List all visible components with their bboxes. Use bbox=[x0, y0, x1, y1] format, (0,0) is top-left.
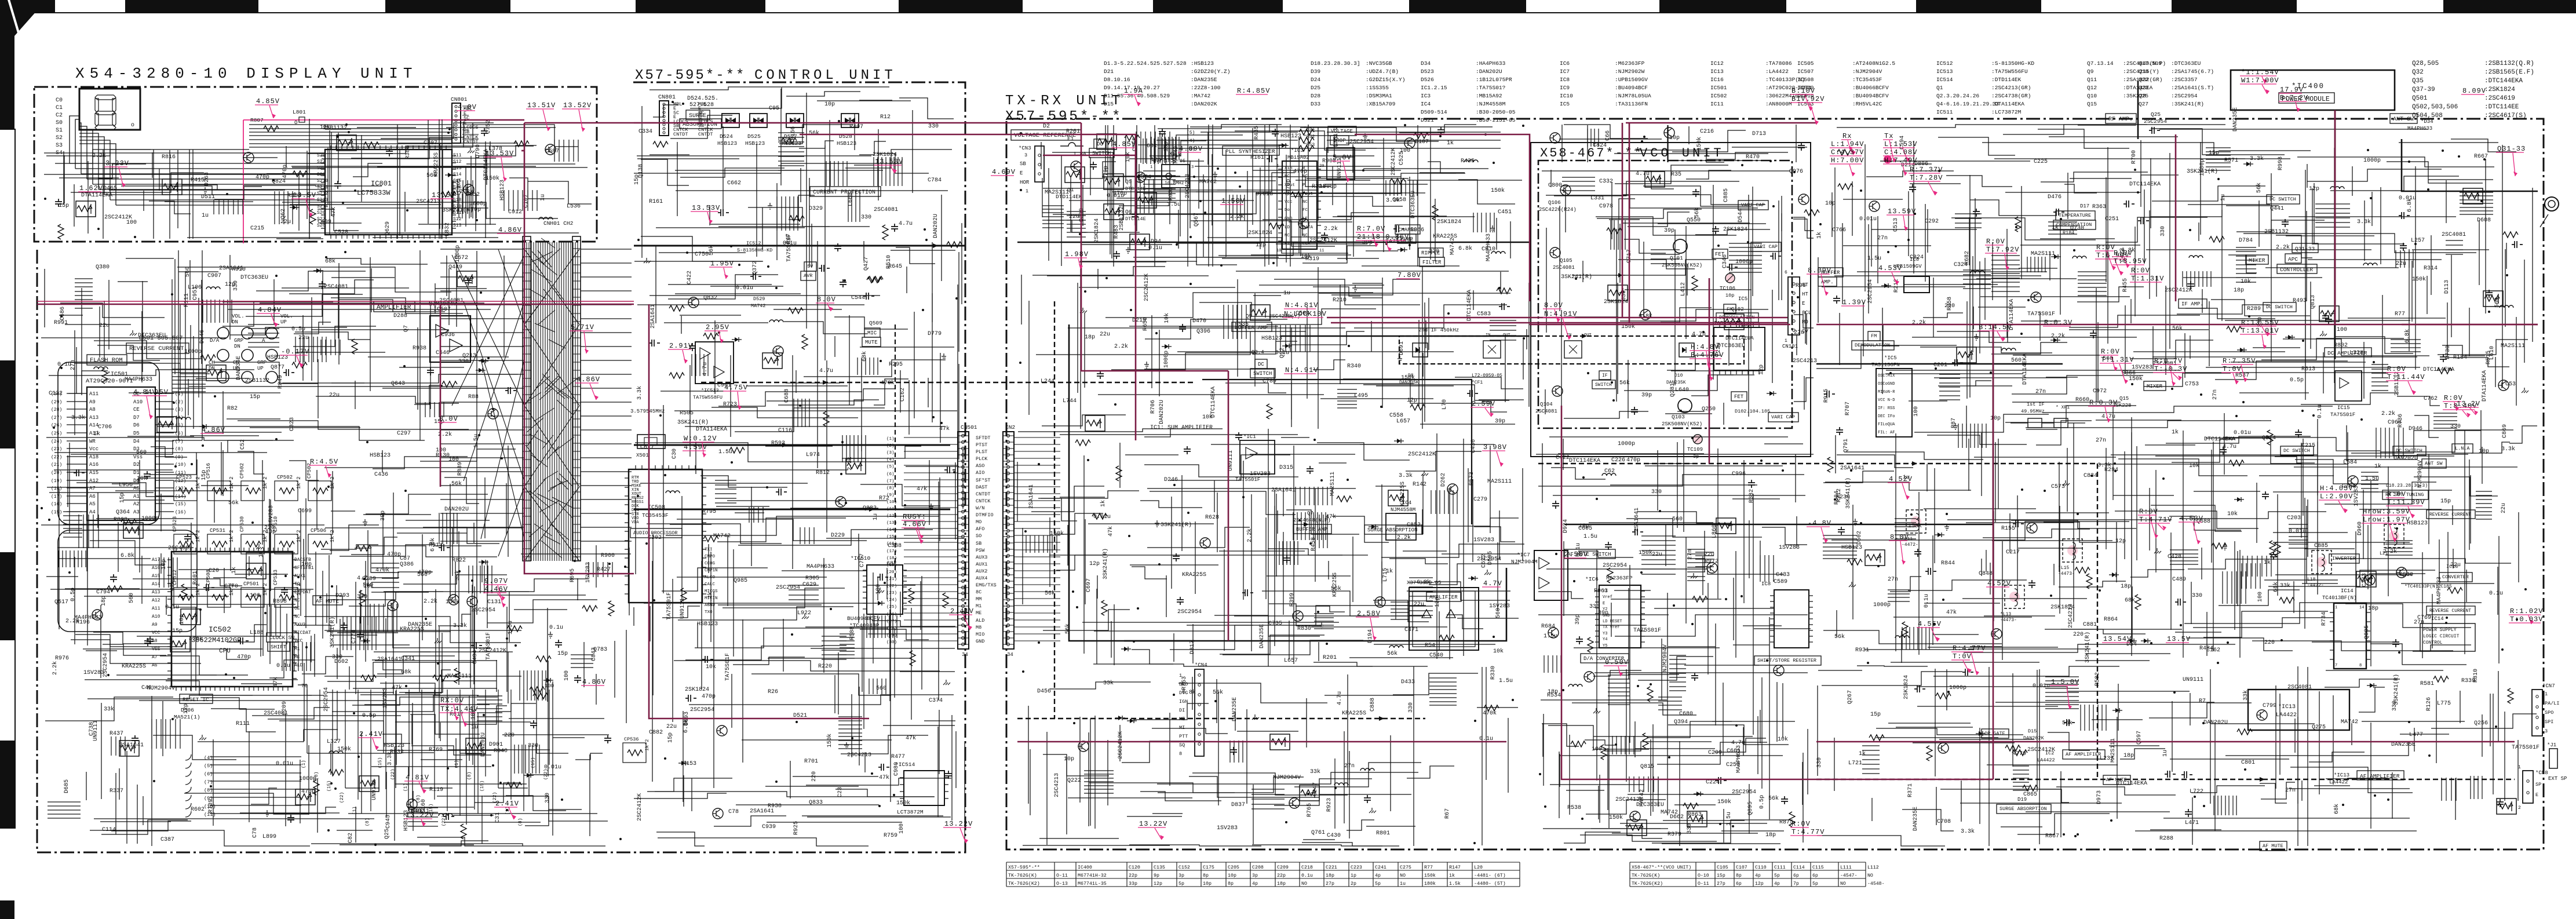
svg-text:0.01u: 0.01u bbox=[736, 285, 753, 291]
svg-text::DTC363EU: :DTC363EU bbox=[2171, 60, 2201, 67]
svg-text:R:0V: R:0V bbox=[2387, 490, 2406, 498]
svg-text:R435: R435 bbox=[1254, 126, 1260, 140]
svg-text:2SC2954: 2SC2954 bbox=[103, 653, 109, 677]
svg-text:(28): (28) bbox=[51, 407, 62, 413]
svg-text:D24: D24 bbox=[1311, 76, 1320, 83]
svg-text:D817: D817 bbox=[1190, 640, 1196, 654]
svg-text:4.86V: 4.86V bbox=[577, 375, 600, 384]
pin stub clusters bbox=[477, 562, 612, 774]
svg-text:2.2k: 2.2k bbox=[2381, 410, 2395, 417]
svg-text:MO: MO bbox=[976, 519, 981, 525]
boxed resistor networks CP501-CP531 bbox=[174, 481, 197, 501]
svg-text:0.1u: 0.1u bbox=[1275, 350, 1289, 356]
svg-text:R925: R925 bbox=[793, 821, 800, 835]
svg-text:R493: R493 bbox=[2293, 298, 2307, 304]
svg-text:68k: 68k bbox=[2272, 582, 2279, 592]
ground bbox=[1144, 362, 1149, 368]
svg-text:TA75S01F: TA75S01F bbox=[786, 234, 793, 262]
svg-text:2SC2412K: 2SC2412K bbox=[1144, 273, 1150, 301]
svg-text:3SK241(R): 3SK241(R) bbox=[2084, 632, 2091, 663]
pin stub clusters bbox=[1224, 283, 1516, 408]
svg-text:3.579545MHz: 3.579545MHz bbox=[630, 409, 665, 414]
svg-text:C23: C23 bbox=[837, 787, 844, 797]
svg-text:3.3k: 3.3k bbox=[2501, 446, 2515, 453]
svg-text:(23): (23) bbox=[886, 591, 897, 596]
svg-text:3SK241(R): 3SK241(R) bbox=[2393, 674, 2400, 705]
IC514 regulator bbox=[904, 771, 944, 805]
resistor R309 bbox=[293, 171, 308, 177]
svg-text:3.98V: 3.98V bbox=[1483, 443, 1507, 451]
svg-text:2SA1641: 2SA1641 bbox=[1271, 487, 1296, 494]
svg-text:MA2S111: MA2S111 bbox=[1045, 189, 1069, 196]
svg-text:0.1u: 0.1u bbox=[1148, 245, 1162, 251]
svg-text:47k: 47k bbox=[272, 677, 279, 687]
svg-text:10k: 10k bbox=[1778, 736, 1788, 743]
svg-text:22u: 22u bbox=[1704, 552, 1714, 558]
svg-text:H:7.00V: H:7.00V bbox=[1831, 156, 1864, 165]
AF mute labels bbox=[2103, 775, 2130, 785]
svg-text:D602: D602 bbox=[334, 659, 348, 665]
capacitor C55 bbox=[1552, 501, 1559, 509]
svg-text:L328: L328 bbox=[2349, 350, 2363, 356]
inductor L888 bbox=[1464, 160, 1478, 162]
svg-text:470k: 470k bbox=[1483, 710, 1497, 717]
transistor Q646 bbox=[1630, 811, 1640, 822]
junction dots bbox=[1747, 241, 1749, 243]
svg-text:VCC: VCC bbox=[152, 630, 160, 636]
ground bbox=[363, 519, 367, 526]
svg-text:(19): (19) bbox=[51, 479, 62, 484]
svg-text:1k: 1k bbox=[2052, 224, 2059, 231]
svg-text:KRA225S: KRA225S bbox=[1182, 572, 1206, 578]
transistor Q445 bbox=[466, 738, 486, 754]
svg-text:(1): (1) bbox=[886, 437, 895, 442]
svg-text:C489: C489 bbox=[2172, 577, 2186, 583]
svg-text:C968: C968 bbox=[2388, 420, 2402, 426]
svg-text:IC16: IC16 bbox=[1710, 76, 1724, 83]
ground bbox=[644, 258, 651, 263]
svg-text:R889: R889 bbox=[457, 462, 464, 476]
svg-text:150k: 150k bbox=[2412, 276, 2426, 283]
diode D570 bbox=[481, 359, 486, 363]
svg-text:0.1u: 0.1u bbox=[2317, 404, 2323, 418]
svg-text:Q32: Q32 bbox=[2412, 69, 2424, 76]
ground bbox=[1490, 225, 1495, 232]
svg-text:22u: 22u bbox=[329, 392, 340, 399]
svg-text:C110: C110 bbox=[1755, 865, 1767, 870]
svg-text:CN501: CN501 bbox=[961, 424, 977, 431]
resistor R138 bbox=[1125, 135, 1140, 141]
svg-text:1000p: 1000p bbox=[469, 201, 487, 207]
svg-text:FM: FM bbox=[1871, 333, 1877, 339]
svg-text:DC SWITCH: DC SWITCH bbox=[2269, 196, 2296, 202]
svg-text:R:0V: R:0V bbox=[2131, 267, 2150, 275]
svg-text:CN801: CN801 bbox=[451, 96, 468, 103]
capacitor C61 bbox=[1307, 466, 1313, 474]
svg-text:150k: 150k bbox=[896, 800, 910, 807]
svg-text:C297: C297 bbox=[397, 431, 411, 437]
svg-text:47k: 47k bbox=[906, 735, 916, 742]
svg-text:D18.23.28.30.3]: D18.23.28.30.3] bbox=[1311, 60, 1360, 67]
svg-text:OSC:MIX: OSC:MIX bbox=[1878, 374, 1895, 378]
svg-text:1.62V: 1.62V bbox=[79, 184, 103, 192]
svg-text:R840: R840 bbox=[494, 748, 508, 754]
svg-text:X57-595*-**: X57-595*-** bbox=[1008, 865, 1040, 870]
resistor R275 bbox=[2229, 460, 2244, 466]
svg-text:Y3: Y3 bbox=[1603, 632, 1607, 636]
svg-text:R684: R684 bbox=[1541, 623, 1555, 630]
svg-text:C885: C885 bbox=[1723, 188, 1730, 202]
svg-text:3.3k: 3.3k bbox=[636, 386, 643, 400]
transistor Q371 bbox=[1716, 518, 1736, 534]
svg-text:(2): (2) bbox=[886, 444, 895, 448]
wire bus bbox=[1542, 512, 1784, 841]
svg-text::1SS355: :1SS355 bbox=[1366, 85, 1389, 91]
wire bus vertical bbox=[1030, 666, 1508, 846]
svg-text:13.22V: 13.22V bbox=[406, 811, 434, 819]
capacitor C615 bbox=[555, 640, 562, 648]
svg-text:18p: 18p bbox=[1548, 689, 1558, 695]
svg-text:15p: 15p bbox=[2440, 498, 2451, 505]
svg-text:DTC114EKA: DTC114EKA bbox=[2116, 781, 2147, 787]
svg-text:1SV283: 1SV283 bbox=[1473, 537, 1494, 544]
resistor R755 bbox=[908, 588, 914, 603]
svg-text:C980: C980 bbox=[893, 762, 900, 776]
transistor Q47 bbox=[123, 523, 143, 538]
svg-text:C794: C794 bbox=[96, 589, 110, 596]
svg-text:1k: 1k bbox=[2172, 429, 2179, 436]
svg-text:A7: A7 bbox=[89, 486, 96, 491]
svg-text:AMPLIFIER: AMPLIFIER bbox=[1429, 595, 1458, 600]
svg-text:CN101: CN101 bbox=[1782, 344, 1798, 349]
capacitor C477 bbox=[2282, 219, 2289, 227]
svg-text:56k: 56k bbox=[1213, 689, 1223, 696]
svg-text:D502: D502 bbox=[1856, 531, 1863, 545]
svg-text:R822: R822 bbox=[452, 557, 466, 564]
svg-text::G2DZ15(X.Y): :G2DZ15(X.Y) bbox=[1366, 76, 1405, 83]
svg-text:1SV283: 1SV283 bbox=[268, 505, 275, 526]
svg-text:5p: 5p bbox=[1375, 881, 1381, 887]
svg-text:R470: R470 bbox=[1746, 154, 1760, 161]
svg-text:C589: C589 bbox=[1774, 579, 1787, 585]
svg-text:4.52V: 4.52V bbox=[1987, 579, 2011, 588]
svg-text:C801: C801 bbox=[2241, 760, 2255, 766]
resistor R799 bbox=[58, 224, 64, 239]
svg-text:1k*2: 1k*2 bbox=[296, 476, 302, 489]
svg-text:DAN202U: DAN202U bbox=[480, 732, 487, 757]
svg-text:R695: R695 bbox=[570, 568, 576, 582]
resistor R610 bbox=[329, 770, 344, 775]
transistor Q206 bbox=[1938, 743, 1949, 753]
capacitor C472 bbox=[1836, 427, 1843, 435]
key matrix VOL/CH buttons bbox=[217, 327, 229, 339]
svg-text:C428: C428 bbox=[2168, 554, 2181, 560]
capacitor C938 bbox=[776, 488, 787, 495]
svg-text:560: 560 bbox=[2011, 358, 2022, 364]
svg-text:0.01u: 0.01u bbox=[1859, 216, 1877, 223]
svg-text:2SC2412K: 2SC2412K bbox=[479, 648, 506, 654]
capacitor C481 bbox=[1242, 589, 1253, 596]
svg-text:49.95MHz: 49.95MHz bbox=[2021, 409, 2045, 414]
svg-text:C540: C540 bbox=[1429, 652, 1443, 659]
wire bus bbox=[1885, 162, 2528, 374]
svg-text:68k: 68k bbox=[401, 669, 411, 676]
svg-text:DTC363EU: DTC363EU bbox=[1410, 191, 1417, 218]
svg-text:L956: L956 bbox=[119, 482, 133, 488]
svg-text:C:4.08V: C:4.08V bbox=[1884, 148, 1917, 156]
svg-text:R966: R966 bbox=[1410, 227, 1424, 234]
svg-text:IC502: IC502 bbox=[1710, 93, 1727, 99]
svg-text:SWITCH: SWITCH bbox=[1595, 382, 1612, 388]
svg-text:3.3k: 3.3k bbox=[2250, 155, 2264, 162]
svg-text:C888: C888 bbox=[1370, 698, 1376, 712]
svg-text:10p: 10p bbox=[179, 614, 185, 625]
svg-text:4.59V: 4.59V bbox=[684, 443, 707, 451]
transistor Q563 bbox=[835, 497, 846, 507]
svg-text:*1:1.54V: *1:1.54V bbox=[2241, 68, 2279, 76]
svg-text:22u: 22u bbox=[298, 335, 309, 341]
capacitor C894 bbox=[1952, 359, 1963, 366]
svg-text:D15: D15 bbox=[2028, 728, 2037, 734]
svg-text:0.01u: 0.01u bbox=[544, 764, 561, 771]
svg-text:150k: 150k bbox=[826, 734, 833, 747]
diode D583 bbox=[1471, 576, 1475, 581]
svg-text:Q364: Q364 bbox=[116, 509, 130, 516]
ground bbox=[1363, 133, 1367, 140]
capacitor C512 bbox=[891, 224, 898, 232]
svg-text:C936: C936 bbox=[441, 332, 455, 338]
svg-text:R645: R645 bbox=[888, 264, 902, 270]
svg-text:C31: C31 bbox=[495, 812, 501, 823]
resistor R175 bbox=[1607, 228, 1622, 234]
svg-text:C2: C2 bbox=[56, 112, 63, 119]
svg-text:R730: R730 bbox=[2445, 345, 2451, 359]
svg-text:39p: 39p bbox=[1664, 228, 1674, 234]
ANT SW label 2 bbox=[2422, 459, 2446, 468]
svg-text:10p: 10p bbox=[265, 529, 276, 535]
resistor R157 bbox=[2212, 543, 2227, 549]
svg-text:AUX3: AUX3 bbox=[976, 555, 987, 560]
transistor Q973 bbox=[1550, 133, 1560, 143]
svg-text:4.86V: 4.86V bbox=[582, 678, 606, 686]
svg-text:D15: D15 bbox=[1104, 101, 1114, 107]
svg-text:AUX2: AUX2 bbox=[976, 568, 987, 574]
resistor R40 bbox=[1337, 496, 1352, 502]
resistor R83 bbox=[1804, 210, 1819, 216]
svg-text:TA75S01F: TA75S01F bbox=[1633, 628, 1661, 634]
svg-text:A15: A15 bbox=[89, 470, 98, 476]
capacitor C11 bbox=[1712, 226, 1719, 234]
svg-text:-4548-: -4548- bbox=[1867, 881, 1884, 887]
capacitor C894 bbox=[74, 469, 85, 476]
svg-text:47k: 47k bbox=[939, 425, 950, 432]
svg-text:DAN202U: DAN202U bbox=[933, 214, 939, 238]
capacitor C221 bbox=[1914, 549, 1921, 557]
svg-text:4.7u: 4.7u bbox=[702, 362, 709, 376]
resistor R974 bbox=[2015, 217, 2021, 232]
svg-text:R976: R976 bbox=[55, 655, 69, 662]
capacitor C562 bbox=[750, 273, 761, 280]
svg-text:NC: NC bbox=[1302, 200, 1308, 205]
svg-text:L.N.A: L.N.A bbox=[2455, 446, 2470, 451]
svg-text:3SK241(R): 3SK241(R) bbox=[677, 419, 709, 426]
junction dots bbox=[2150, 642, 2152, 644]
diode D210 bbox=[479, 368, 483, 373]
wire bus bbox=[1564, 165, 1770, 391]
svg-text:C617: C617 bbox=[640, 444, 654, 451]
svg-text:M1: M1 bbox=[976, 603, 981, 609]
capacitor C677 bbox=[1230, 747, 1237, 755]
pin stub clusters bbox=[59, 512, 315, 671]
svg-text:22u: 22u bbox=[2450, 562, 2461, 568]
capacitor C47 bbox=[341, 622, 348, 630]
svg-text:CP501: CP501 bbox=[243, 581, 259, 587]
svg-text:R147: R147 bbox=[1449, 865, 1461, 870]
svg-text:27p: 27p bbox=[1326, 881, 1334, 887]
transistor Q23 bbox=[1957, 347, 1976, 363]
svg-text:*CN3: *CN3 bbox=[1019, 145, 1031, 151]
svg-text:UP: UP bbox=[280, 319, 287, 325]
svg-text:470p: 470p bbox=[1286, 179, 1292, 193]
svg-text:D525: D525 bbox=[747, 133, 761, 140]
svg-text:1000p: 1000p bbox=[2363, 158, 2381, 164]
svg-text:1: 1 bbox=[2518, 765, 2521, 770]
svg-text:2SC2412K: 2SC2412K bbox=[2027, 747, 2055, 753]
resistor R843 bbox=[2503, 232, 2518, 238]
connector CN3 bbox=[1035, 146, 1044, 182]
transistor Q776 bbox=[1071, 161, 1081, 172]
svg-text:MIXoN-R: MIXoN-R bbox=[1878, 390, 1895, 395]
svg-text:MA742: MA742 bbox=[1661, 809, 1678, 816]
svg-text:DEC IFo: DEC IFo bbox=[1878, 414, 1895, 419]
svg-text:D524: D524 bbox=[720, 133, 733, 140]
svg-text:R77: R77 bbox=[1424, 865, 1433, 870]
svg-text:330: 330 bbox=[928, 123, 939, 130]
svg-text:L237: L237 bbox=[2100, 756, 2114, 762]
svg-text:NO: NO bbox=[1301, 881, 1307, 887]
svg-text:Rx: Rx bbox=[1842, 132, 1852, 140]
ground bbox=[1953, 423, 1958, 429]
svg-text:1k: 1k bbox=[2374, 463, 2381, 470]
svg-text:S12: S12 bbox=[453, 217, 462, 222]
svg-text:C115: C115 bbox=[1812, 865, 1824, 870]
wire bus vertical bbox=[64, 149, 309, 239]
capacitor C615 bbox=[471, 642, 482, 649]
svg-text:IC514: IC514 bbox=[1936, 76, 1953, 83]
svg-text:2SC4081: 2SC4081 bbox=[168, 545, 192, 552]
svg-text:18p: 18p bbox=[2123, 753, 2134, 759]
svg-text:C544: C544 bbox=[851, 295, 865, 301]
wire bus bbox=[94, 701, 521, 846]
svg-text:1k*2: 1k*2 bbox=[644, 739, 650, 751]
svg-text:CP502: CP502 bbox=[239, 463, 245, 479]
svg-text:8C: 8C bbox=[976, 589, 981, 595]
svg-text:D521: D521 bbox=[1421, 117, 1434, 123]
capacitor C137 bbox=[1781, 796, 1788, 804]
svg-text:(8): (8) bbox=[886, 486, 895, 491]
inductor L855 bbox=[1334, 783, 1348, 785]
svg-text:C996: C996 bbox=[1732, 471, 1746, 477]
svg-text:D470: D470 bbox=[1192, 318, 1206, 324]
svg-text:2SC2412K: 2SC2412K bbox=[1391, 148, 1397, 176]
svg-text:S26: S26 bbox=[317, 210, 326, 216]
transistor Q606 bbox=[1137, 192, 1156, 208]
svg-text:D784: D784 bbox=[2239, 238, 2253, 244]
svg-text:A18: A18 bbox=[89, 454, 98, 460]
svg-text:X501: X501 bbox=[636, 453, 649, 458]
svg-text:L660: L660 bbox=[848, 192, 854, 206]
svg-text:12p: 12p bbox=[1151, 157, 1161, 163]
svg-text::2SC4617(S): :2SC4617(S) bbox=[2484, 112, 2527, 119]
svg-text:C869: C869 bbox=[2502, 424, 2508, 438]
resistor R365 bbox=[313, 780, 319, 795]
svg-text:C241: C241 bbox=[1375, 865, 1386, 870]
resistor R18 bbox=[582, 606, 597, 611]
svg-text:L722: L722 bbox=[2190, 789, 2203, 795]
svg-text:33k: 33k bbox=[104, 706, 114, 713]
svg-text:Q22: Q22 bbox=[2139, 76, 2148, 83]
svg-text:Q394: Q394 bbox=[1674, 719, 1688, 725]
svg-text:C111: C111 bbox=[1774, 865, 1786, 870]
svg-text:C774: C774 bbox=[351, 630, 357, 644]
svg-text:*IC7: *IC7 bbox=[1517, 552, 1530, 558]
inductor L250 bbox=[666, 491, 680, 493]
wire bus bbox=[279, 123, 592, 233]
resistor R219 bbox=[1692, 276, 1698, 291]
capacitor C101 bbox=[1113, 251, 1120, 259]
svg-text:R142: R142 bbox=[1413, 482, 1426, 488]
PLL synthesizer IC3 bbox=[1223, 146, 1279, 155]
svg-text:R802: R802 bbox=[2334, 342, 2348, 349]
svg-text:IC400: IC400 bbox=[1078, 865, 1092, 870]
svg-text:R910: R910 bbox=[232, 267, 246, 273]
svg-text:IC507: IC507 bbox=[1797, 68, 1814, 75]
svg-text:*D34: *D34 bbox=[2421, 119, 2433, 125]
svg-text:C52: C52 bbox=[240, 439, 246, 450]
transistor Q295 bbox=[773, 346, 783, 356]
IC501 flash ROM bbox=[87, 387, 155, 520]
svg-text:4.81V: 4.81V bbox=[406, 774, 429, 782]
svg-text:KRA225S: KRA225S bbox=[1342, 710, 1366, 717]
diode D693 bbox=[448, 173, 452, 177]
transistor Q837 bbox=[92, 610, 103, 620]
svg-text:*CN4: *CN4 bbox=[1195, 662, 1207, 668]
connector CN801 bbox=[659, 101, 669, 136]
svg-text:D288: D288 bbox=[393, 313, 407, 319]
svg-text:R289: R289 bbox=[2247, 306, 2261, 312]
svg-text:R427: R427 bbox=[597, 567, 611, 573]
svg-text:1k: 1k bbox=[1449, 873, 1455, 878]
dc switch Q3 bbox=[1255, 359, 1267, 369]
svg-text:D790: D790 bbox=[475, 144, 481, 158]
transistor Q717 bbox=[688, 297, 699, 308]
svg-text:L111: L111 bbox=[1840, 865, 1852, 870]
svg-text:D262: D262 bbox=[1440, 473, 1447, 487]
svg-text:H:7.49V: H:7.49V bbox=[1884, 156, 1917, 165]
svg-text:3.3k: 3.3k bbox=[1386, 197, 1400, 204]
svg-text:(7): (7) bbox=[204, 779, 213, 785]
diode D356 bbox=[2112, 572, 2116, 577]
svg-text:NO: NO bbox=[1400, 873, 1406, 878]
svg-text:1.5u: 1.5u bbox=[718, 449, 732, 455]
svg-text:CP536: CP536 bbox=[624, 736, 639, 742]
capacitor C550 bbox=[1973, 209, 1980, 217]
capacitor C820 bbox=[1437, 127, 1444, 135]
svg-text:DTC114EKA: DTC114EKA bbox=[2129, 181, 2161, 188]
transistor Q813 bbox=[157, 417, 177, 432]
svg-text:Q256: Q256 bbox=[2474, 720, 2488, 727]
svg-text:R898: R898 bbox=[273, 599, 287, 605]
